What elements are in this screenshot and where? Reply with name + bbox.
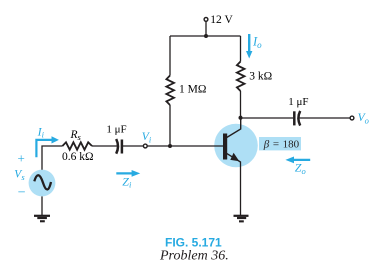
wire right branch lower xyxy=(240,91,242,118)
svg-text:−: − xyxy=(18,186,26,201)
svg-text:12 V: 12 V xyxy=(210,14,233,26)
wire emitter to ground xyxy=(240,162,242,216)
junction dot collector node xyxy=(239,116,243,120)
arrow Zo xyxy=(285,157,310,164)
wire source bottom xyxy=(41,196,43,215)
source VS sine wave xyxy=(34,175,51,189)
svg-text:+: + xyxy=(18,151,25,166)
wire cap to Vi xyxy=(122,145,143,147)
svg-text:0.6 kΩ: 0.6 kΩ xyxy=(62,151,94,163)
wire left branch upper xyxy=(169,36,171,76)
transistor Q1 body circle xyxy=(214,124,258,168)
wire left branch lower xyxy=(169,105,171,146)
resistor R1 1 Mohm xyxy=(166,76,174,106)
svg-text:β = 180: β = 180 xyxy=(263,139,300,151)
source VS body circle xyxy=(29,170,56,197)
label beta box xyxy=(259,137,301,150)
node Vi terminal xyxy=(143,144,147,148)
arrow Zi xyxy=(116,170,140,177)
svg-text:1 μF: 1 μF xyxy=(288,96,308,108)
wire Rs to input cap xyxy=(92,145,117,147)
wire top rail xyxy=(170,35,241,37)
svg-text:FIG. 5.171: FIG. 5.171 xyxy=(165,236,222,250)
arrow Ii xyxy=(36,136,59,157)
svg-text:3 kΩ: 3 kΩ xyxy=(249,70,272,82)
arrow Io xyxy=(246,34,252,59)
svg-text:1 μF: 1 μF xyxy=(106,123,126,135)
ground (source) xyxy=(34,215,50,223)
svg-text:1 MΩ: 1 MΩ xyxy=(179,84,206,96)
wire Vi to base xyxy=(147,145,223,147)
wire collector to output cap xyxy=(241,117,294,119)
svg-text:Problem 36.: Problem 36. xyxy=(159,249,229,264)
wire cap to Vo xyxy=(299,117,350,119)
capacitor C2 1uF output xyxy=(293,111,296,125)
wire 12V drop xyxy=(205,22,207,37)
junction dot base node xyxy=(168,144,172,148)
wire source top riser xyxy=(42,146,62,170)
resistor RS 0.6 kohm xyxy=(62,142,92,149)
wire right branch upper xyxy=(240,36,242,62)
transistor Q1 collector lead xyxy=(227,116,241,138)
capacitor C1 1uF input xyxy=(116,139,118,154)
transistor Q1 emitter lead with arrow xyxy=(227,153,241,162)
ground (emitter) xyxy=(234,215,249,223)
resistor R2 3 kohm xyxy=(237,62,245,92)
node 12V terminal xyxy=(204,18,208,22)
node Vo terminal xyxy=(350,116,354,120)
transistor Q1 base bar xyxy=(223,134,227,160)
junction dot on top rail xyxy=(204,34,208,38)
